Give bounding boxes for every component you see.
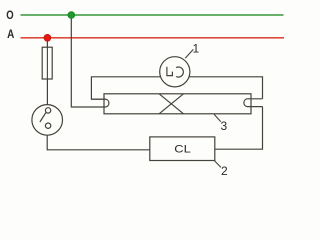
svg-text:A: A: [7, 27, 14, 41]
label 1 leader: [185, 49, 193, 58]
filament left: [91, 99, 109, 107]
label 3 leader: [214, 114, 221, 121]
wire: fuse to switch: [46, 79, 48, 105]
svg-text:2: 2: [221, 164, 228, 178]
svg-text:O: O: [6, 8, 13, 22]
node: junction dot on A line: [44, 34, 51, 41]
switch S (push-button / interrupter): [32, 105, 63, 136]
wire: from node on O down to tube lower-left pin: [71, 15, 106, 107]
wire: red line net A: [21, 37, 285, 39]
wire: from node on A down to fuse: [46, 38, 48, 47]
node: junction dot on O line: [68, 12, 75, 19]
label 2 leader: [214, 161, 221, 168]
starter U1 circle: [160, 57, 190, 87]
wire: ballast CL to tube lower-right pin: [215, 107, 263, 150]
ballast CL: [150, 137, 215, 161]
wire: starter right to tube upper-right pin: [189, 77, 262, 99]
filament right: [244, 99, 263, 107]
svg-text:CL: CL: [174, 144, 191, 156]
wire: switch bottom to ballast CL: [47, 135, 150, 150]
lamp tube gas cross: [159, 94, 183, 114]
fuse F: [42, 47, 52, 79]
starter bimetal electrode: [176, 67, 183, 77]
lamp tube body: [104, 94, 251, 114]
wire: green line net O: [21, 14, 284, 16]
starter fixed electrode: [167, 67, 173, 76]
svg-text:3: 3: [221, 119, 228, 133]
svg-text:1: 1: [193, 42, 200, 56]
wire: tube upper-left pin up to starter: [91, 77, 160, 99]
paper background: [0, 0, 291, 184]
